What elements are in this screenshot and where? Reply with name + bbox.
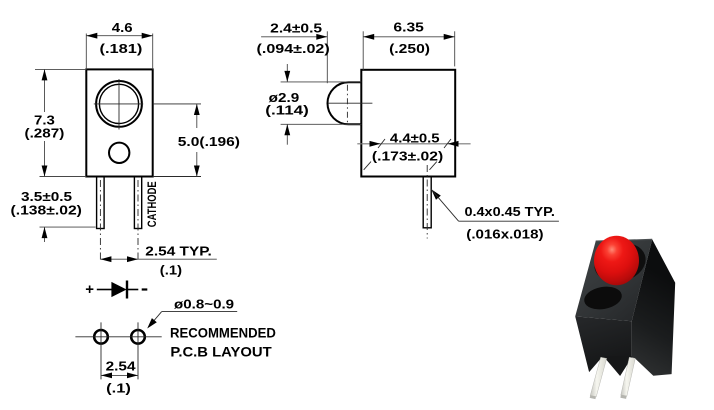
dim 7.3 extension top [35,68,86,70]
svg-text:CATHODE: CATHODE [145,181,159,227]
svg-text:RECOMMENDED: RECOMMENDED [170,324,276,340]
leader 0.4x0.45 arrowhead [431,189,441,200]
dim 4.4 oblique tick left upper [378,139,385,148]
3d led mounting hole crescent [590,237,650,287]
LED lens hole inner circle [99,84,138,123]
dim 5.0 line upper [196,104,198,128]
svg-text:5.0(.196): 5.0(.196) [178,134,240,149]
dim 2.4 extension (dome tip) [326,31,328,83]
dim 3.5 extension at lead end [40,226,96,228]
minus sign [142,288,148,290]
dim 4.4 oblique tick left lower [364,162,371,170]
pcb hole right [131,330,145,344]
svg-text:(.094±.02): (.094±.02) [257,41,330,56]
svg-text:4.6: 4.6 [112,20,133,35]
3d body right side face [632,239,676,375]
LED lens hole outer circle [96,81,142,127]
anode wire [97,289,112,291]
dome centerline vertical [346,85,348,123]
dim 4.4 line [357,143,470,145]
svg-text:(.138±.02): (.138±.02) [11,202,82,217]
svg-text:(.114): (.114) [265,103,309,118]
svg-text:(.181): (.181) [100,41,143,56]
svg-text:0.4x0.45 TYP.: 0.4x0.45 TYP. [465,204,555,219]
leader diagonal [149,312,162,327]
dim 7.3 arrow down [42,166,48,177]
dim 5.0 line lower [196,152,198,177]
dim 4.6 line [86,35,152,37]
dim ø2.9 arrow down [284,71,290,82]
dim 2.4 line with outside arrow [261,36,327,38]
dim 7.3 arrow up [42,69,48,80]
dim ø2.9 arrow line top [286,64,288,82]
pcb left hole vertical centerline [100,322,102,379]
leader arrowhead [147,318,157,328]
dim 4.6 extension right [152,34,154,70]
dim 2.54 arrow right [127,256,138,262]
dim 4.6 arrow right [142,33,153,39]
svg-text:2.4±0.5: 2.4±0.5 [270,21,322,36]
3d left lead [590,357,607,397]
3d left lead end cap [590,395,596,399]
svg-text:4.4±0.5: 4.4±0.5 [390,130,440,145]
lens centerline vertical [118,79,120,130]
lens centerline extension right [153,103,201,105]
svg-text:(.016x.018): (.016x.018) [466,226,543,241]
svg-text:6.35: 6.35 [393,20,424,35]
dim 3.5 arrow tail [44,227,46,242]
dim 6.35 arrow left [363,34,374,40]
dim 4.6 arrow left [86,33,97,39]
dim 2.54 TYP line [100,258,216,260]
dim 4.6 extension left [85,34,87,70]
pcb right hole vertical centerline [137,322,139,379]
cathode wire [127,289,138,291]
dim 2.4 arrow [316,34,327,40]
pcb dim arrow left [101,373,112,379]
pcb dim 2.54 line [101,374,138,376]
3d empty hole on face [582,284,623,312]
3d body center wedge between leads [604,356,633,376]
leader underline [162,311,238,313]
svg-text:+: + [85,281,94,298]
svg-text:(.1): (.1) [106,381,131,396]
pcb dim arrow right [127,373,138,379]
dim 6.35 line [363,36,455,38]
dim 5.0 arrow up [194,104,200,115]
3d body lower front face [575,316,632,372]
leader 0.4x0.45 diagonal [431,189,458,221]
lens centerline horizontal [94,103,143,105]
dim 3.5 arrow up [42,227,48,238]
diode triangle [111,282,126,297]
dome centerline horizontal [328,102,372,104]
LED dome protruding left [328,82,362,124]
3d red LED dome [594,236,639,285]
svg-text:(.287): (.287) [25,125,65,140]
side view lead outline [423,177,431,228]
dim 4.4 oblique tick right upper [444,139,451,148]
svg-text:ø0.8~0.9: ø0.8~0.9 [174,296,234,311]
svg-text:(.250): (.250) [389,41,430,56]
cathode bar [126,281,128,299]
dim 4.4 arrow right [448,141,459,147]
box bottom extension right [153,176,201,178]
pcb centerline horizontal [75,336,161,338]
side view body outline [361,70,455,177]
dim 7.3 line lower [44,141,46,177]
right lead outline [134,177,141,229]
svg-text:2.54 TYP.: 2.54 TYP. [145,244,212,259]
dim 4.4 oblique tick right lower [430,162,437,170]
leader 0.4x0.45 underline [459,220,559,222]
dim 7.3 line upper [44,69,46,112]
dim 6.35 arrow right [444,34,455,40]
dim ø2.9 extension top [281,81,362,83]
svg-text:(.173±.02): (.173±.02) [372,149,443,164]
3d right lead [621,357,636,396]
3d body top edge highlight [596,239,653,241]
svg-text:P.C.B LAYOUT: P.C.B LAYOUT [170,344,272,360]
dim ø2.9 arrow up [284,124,290,135]
front view body outline [86,69,152,176]
3d right lead end cap [620,395,626,399]
left lead outline [97,177,105,229]
left lead centerline [99,180,101,261]
small mounting hole [109,143,129,163]
dim ø2.9 extension bottom [281,123,362,125]
dim 6.35 extension right [454,31,456,66]
dim 6.35 extension left [362,31,364,70]
pcb hole left [94,330,108,344]
svg-text:2.54: 2.54 [106,358,137,373]
right lead centerline [137,180,139,261]
svg-text:(.1): (.1) [160,262,182,277]
dim 4.4 arrow left [370,141,381,147]
side view lead centerline [426,165,428,239]
3d body face with holes [575,239,652,321]
dim 2.54 arrow left [100,256,111,262]
dim 7.3 extension bottom [40,176,87,178]
dim ø2.9 arrow line bottom [286,124,288,144]
dim 5.0 arrow down [194,166,200,177]
